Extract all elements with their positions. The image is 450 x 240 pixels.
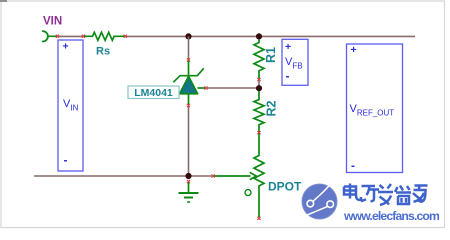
potentiometer DPOT xyxy=(214,134,265,218)
input terminal VIN xyxy=(43,31,48,41)
wire anode to ground node xyxy=(188,106,190,176)
wire bottom rail xyxy=(34,175,189,177)
probe box VIN xyxy=(58,40,83,171)
wire FB to R1R2 node xyxy=(207,87,260,89)
ground xyxy=(179,182,199,202)
svg-text:www.elecfans.com: www.elecfans.com xyxy=(343,209,440,223)
svg-text:-: - xyxy=(286,69,290,83)
junction R1-R2-FB xyxy=(256,85,262,91)
svg-text:DPOT: DPOT xyxy=(268,179,302,193)
svg-text:Rs: Rs xyxy=(96,46,110,58)
wire top rail xyxy=(126,35,416,37)
probe box VREF_OUT xyxy=(347,44,403,173)
pin bottom xyxy=(257,217,260,220)
svg-text:+: + xyxy=(63,41,69,53)
pin xyxy=(257,78,260,81)
pin xyxy=(257,131,260,134)
resistor R2 xyxy=(254,91,264,132)
pin anode xyxy=(187,104,190,107)
resistor Rs xyxy=(84,32,125,40)
svg-text:-: - xyxy=(64,153,68,167)
watermark chinese glyphs xyxy=(344,184,428,206)
watermark logo xyxy=(302,179,337,219)
svg-text:R1: R1 xyxy=(264,47,278,63)
pin FB xyxy=(204,86,207,89)
svg-text:+: + xyxy=(351,44,357,56)
probe box VFB xyxy=(282,39,308,85)
pin xyxy=(82,35,85,38)
svg-text:VIN: VIN xyxy=(43,16,62,28)
wire xyxy=(58,35,84,37)
pin wiper xyxy=(212,174,215,177)
wire xyxy=(188,36,190,60)
pin ground xyxy=(187,180,190,183)
svg-text:-: - xyxy=(351,159,355,173)
label LM4041 xyxy=(128,86,179,99)
svg-text:LM4041: LM4041 xyxy=(134,87,173,99)
resistor R1 xyxy=(254,40,264,80)
wire ground node to wiper xyxy=(189,175,214,177)
svg-text:R2: R2 xyxy=(264,100,278,116)
pin xyxy=(56,35,59,38)
shunt voltage reference U1 LM4041 xyxy=(173,61,206,106)
pin xyxy=(124,35,127,38)
wire xyxy=(258,80,260,88)
junction top-R1 xyxy=(256,33,262,39)
pin xyxy=(187,58,190,61)
wire xyxy=(48,35,57,37)
junction ground node xyxy=(185,173,191,179)
junction top-LM4041 xyxy=(185,33,191,39)
svg-text:+: + xyxy=(285,41,291,53)
